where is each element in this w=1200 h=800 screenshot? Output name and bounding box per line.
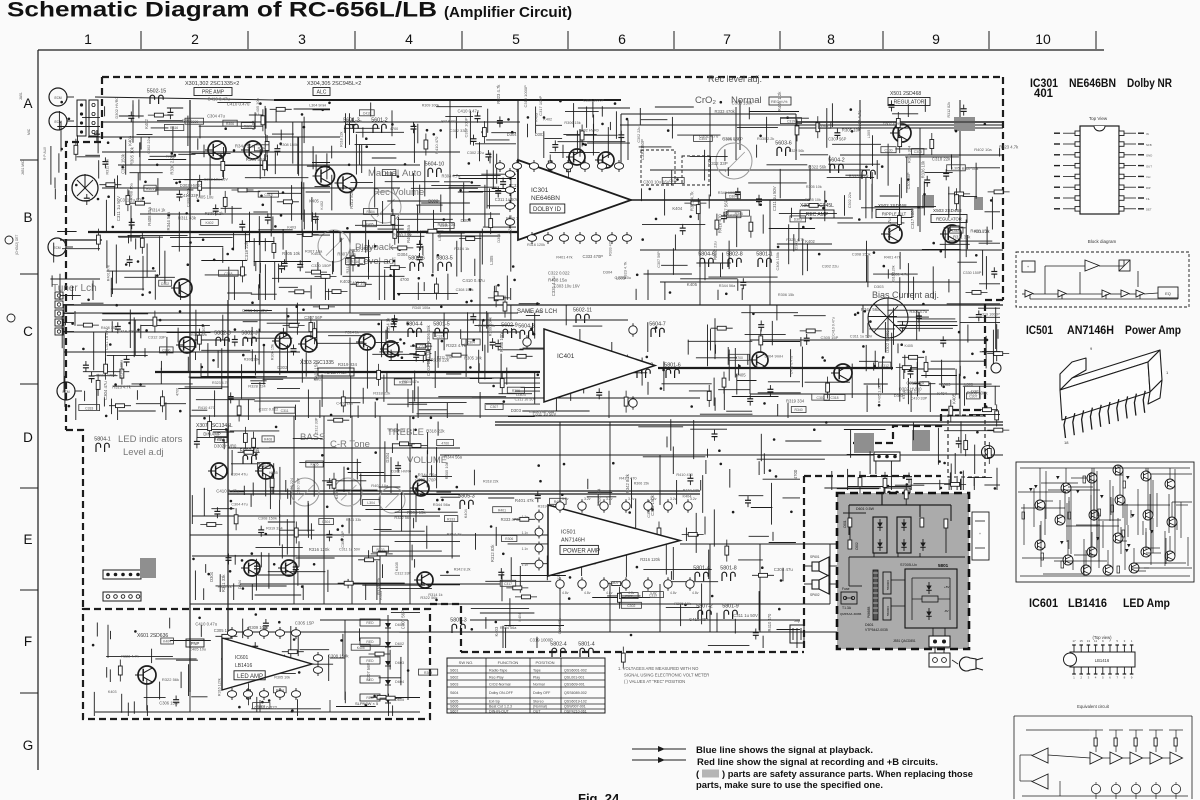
wire: [263, 344, 265, 385]
wire: [929, 383, 931, 413]
wire: [685, 528, 687, 541]
wire: [297, 699, 299, 716]
svg-text:R314 1k: R314 1k: [345, 331, 359, 335]
wire: [331, 175, 333, 211]
wire: [164, 251, 166, 284]
junction: [137, 260, 140, 263]
capacitor on stub: [282, 259, 288, 270]
wire: [581, 537, 583, 576]
wire: [625, 540, 627, 577]
wire: [135, 238, 137, 249]
resistor on stub: [272, 237, 276, 259]
wire: [767, 164, 808, 166]
wire: [566, 528, 568, 569]
wire: [894, 325, 958, 327]
wire: [328, 655, 330, 681]
svg-text:RIP: RIP: [1146, 186, 1151, 190]
wire: [781, 117, 809, 119]
wire bus A2: [88, 136, 340, 138]
svg-text:D303: D303: [461, 218, 472, 223]
svg-text:L304: L304: [367, 501, 375, 505]
wire: [144, 697, 166, 699]
wire: [223, 440, 225, 449]
junction: [121, 166, 124, 169]
junction: [321, 454, 324, 457]
junction: [563, 463, 566, 466]
wire: [146, 679, 148, 711]
wire: [837, 488, 879, 490]
wire: [662, 383, 712, 385]
wire: [483, 226, 516, 228]
wire: [510, 230, 512, 271]
resistor on stub: [208, 415, 212, 437]
switch: [862, 170, 875, 179]
capacitor on stub: [127, 256, 133, 267]
wire bus C5: [64, 351, 300, 353]
svg-text:R323 4.7k: R323 4.7k: [112, 384, 132, 389]
wire: [641, 358, 643, 386]
wire: [438, 235, 501, 237]
wire: [785, 440, 821, 442]
capacitor on stub: [758, 321, 764, 332]
wire: [485, 580, 551, 582]
junction: [128, 322, 131, 325]
svg-text:IC401: IC401: [557, 353, 575, 360]
wire: [772, 532, 774, 541]
wire: [165, 402, 167, 420]
wire: [779, 213, 837, 215]
wire: [139, 143, 141, 158]
wire rec box right: [795, 114, 797, 160]
wire: [298, 137, 300, 176]
junction: [222, 439, 225, 442]
wire: [688, 340, 753, 342]
wire: [328, 335, 365, 337]
wire: [380, 588, 432, 590]
wire: [176, 659, 198, 661]
wire: [379, 351, 403, 353]
svg-text:C318: C318: [264, 193, 272, 197]
wire: [670, 419, 672, 451]
svg-text:C318 22k: C318 22k: [244, 241, 249, 261]
wire: [417, 413, 464, 415]
capacitor on stub: [173, 696, 179, 707]
wire: [272, 133, 294, 135]
wire: [397, 217, 399, 244]
wire: [499, 349, 524, 351]
junction: [975, 254, 978, 257]
svg-text:L305: L305: [616, 275, 626, 280]
wire rec box left: [620, 114, 622, 165]
wire: [359, 628, 361, 641]
svg-text:QSS609-001: QSS609-001: [564, 683, 585, 687]
capacitor on stub: [721, 212, 727, 223]
transistor K409: [414, 572, 433, 588]
svg-text:5801-8: 5801-8: [720, 566, 737, 572]
wire: [565, 111, 599, 113]
svg-text:R316 120k: R316 120k: [309, 547, 331, 552]
wire: [290, 491, 292, 504]
junction: [568, 597, 571, 600]
resistor on stub: [682, 533, 704, 537]
wire: [77, 135, 79, 146]
wire: [155, 189, 193, 191]
wire: [385, 697, 420, 699]
junction: [242, 354, 245, 357]
wire: [136, 390, 138, 400]
capacitor on stub: [471, 135, 477, 146]
svg-text:R309 100k: R309 100k: [248, 625, 269, 630]
wire: [133, 317, 135, 357]
wire: [251, 708, 321, 710]
wire: [293, 437, 323, 439]
capacitor on stub: [258, 526, 264, 537]
resistor on stub: [140, 232, 144, 254]
svg-text:C303: C303: [817, 396, 825, 400]
wire: [666, 437, 668, 448]
wire: [300, 649, 330, 651]
svg-text:K404: K404: [518, 613, 522, 622]
svg-text:R323 4.7k: R323 4.7k: [212, 381, 229, 385]
svg-text:D303: D303: [795, 241, 799, 250]
svg-text:GND: GND: [1146, 154, 1152, 158]
switch 5803-5: [436, 256, 453, 272]
wire: [264, 238, 266, 251]
svg-text:1. VOLTAGES ARE MEASURED WIT: 1. VOLTAGES ARE MEASURED WITH NO: [618, 666, 699, 671]
transistor K404: [380, 341, 399, 357]
svg-text:POWER AMP: POWER AMP: [563, 548, 600, 554]
resistor on stub: [752, 573, 774, 577]
junction: [412, 331, 415, 334]
svg-text:Schematic Diagram of RC-656L/L: Schematic Diagram of RC-656L/LB: [7, 0, 437, 22]
wire: [426, 526, 428, 549]
wire: [593, 115, 595, 140]
wire: [372, 353, 427, 355]
svg-text:QMF5AZ-J0086: QMF5AZ-J0086: [840, 612, 862, 616]
wire: [106, 655, 173, 657]
svg-text:RED: RED: [366, 659, 374, 663]
svg-text:4.8v: 4.8v: [628, 591, 635, 595]
wire: [62, 248, 100, 250]
svg-text:PNP: PNP: [191, 641, 200, 646]
ruler left frame line: [37, 50, 39, 770]
svg-text:D304: D304: [507, 132, 518, 137]
wire: [297, 571, 299, 586]
wire: [151, 649, 153, 663]
junction: [777, 246, 780, 249]
junction: [230, 500, 233, 503]
svg-text:11: 11: [1094, 639, 1097, 643]
svg-text:C410 33P: C410 33P: [911, 397, 928, 401]
capacitor on stub: [497, 116, 503, 127]
resistor on stub: [896, 112, 900, 134]
capacitor on stub: [735, 188, 741, 199]
wire: [948, 279, 950, 292]
wire: [424, 160, 426, 196]
svg-text:Red line show the signal at re: Red line show the signal at recording an…: [697, 757, 938, 768]
capacitor on stub: [956, 437, 962, 448]
capacitor on stub: [417, 240, 423, 251]
junction: [273, 563, 276, 566]
svg-text:X502 2SD468: X502 2SD468: [878, 203, 907, 208]
wire: [459, 178, 497, 180]
wire: [635, 289, 637, 300]
svg-text:R306: R306: [226, 122, 234, 126]
junction: [265, 533, 268, 536]
capacitor on stub: [753, 629, 759, 640]
wire: [197, 138, 199, 150]
wire vert v23: [63, 305, 65, 392]
wire: [931, 360, 986, 362]
transistor K402: [298, 336, 317, 352]
svg-text:C304 47u: C304 47u: [231, 472, 248, 477]
capacitor on stub: [490, 338, 496, 349]
svg-text:C302 22u: C302 22u: [147, 137, 151, 153]
wire bias2: [750, 393, 960, 395]
wire playback bus: [88, 231, 518, 233]
switch 5805-3: [458, 494, 475, 510]
wire: [379, 486, 401, 488]
wire: [985, 336, 987, 369]
wire: [689, 390, 712, 392]
wire: [233, 583, 235, 600]
wire: [727, 347, 729, 365]
dashed boundary stair right: [850, 300, 1003, 443]
wire: [355, 224, 404, 226]
wire vert 740: [739, 100, 741, 150]
junction: [197, 199, 200, 202]
junction: [185, 212, 188, 215]
wire: [267, 155, 269, 171]
wire: [432, 377, 494, 379]
svg-text:C410 0.47u: C410 0.47u: [462, 278, 485, 283]
wire: [758, 591, 760, 630]
wire: [382, 201, 384, 224]
wire: [607, 127, 609, 158]
wire: [366, 347, 368, 389]
svg-text:K405: K405: [269, 471, 277, 475]
resistor on stub: [803, 204, 825, 208]
svg-text:E: E: [23, 532, 32, 547]
svg-text:C405 10u: C405 10u: [255, 98, 260, 115]
wire: [385, 181, 440, 183]
svg-text:P6668B: P6668B: [867, 607, 871, 618]
svg-text:C405 10u: C405 10u: [336, 401, 353, 406]
svg-text:IC501: IC501: [1026, 323, 1053, 337]
svg-text:C331 4.7u: C331 4.7u: [887, 218, 892, 238]
wire: [958, 261, 977, 263]
label REC AMP boxed: [800, 210, 834, 218]
capacitor on stub: [940, 336, 946, 347]
junction: [495, 621, 498, 624]
junction: [377, 323, 380, 326]
wire: [578, 107, 630, 109]
wire: [300, 182, 302, 220]
svg-text:4700: 4700: [390, 127, 398, 131]
svg-text:D605: D605: [395, 698, 404, 702]
wire: [484, 185, 486, 227]
wire: [251, 293, 277, 295]
svg-text:R312 82k: R312 82k: [947, 102, 951, 118]
svg-text:R410 470: R410 470: [717, 214, 722, 234]
wire: [850, 429, 852, 458]
junction: [301, 585, 304, 588]
resistor on stub: [309, 316, 313, 338]
capacitor on stub: [961, 105, 967, 116]
jack labels left margin: [5, 92, 47, 322]
svg-text:C318 22k: C318 22k: [906, 381, 925, 386]
resistor on stub: [858, 471, 862, 493]
svg-text:J451 MIC: J451 MIC: [21, 160, 25, 175]
wire: [615, 111, 617, 139]
psu transformer winding bar: [867, 570, 878, 620]
svg-text:R319: R319: [217, 438, 225, 442]
junction: [365, 145, 368, 148]
svg-text:R323 4.7k: R323 4.7k: [496, 84, 501, 104]
wire: [707, 449, 709, 458]
wire: [311, 197, 313, 222]
wire: [255, 261, 257, 271]
capacitor on stub: [263, 619, 269, 630]
svg-text:C311: C311: [281, 409, 289, 413]
wire: [704, 517, 706, 535]
wire: [132, 383, 193, 385]
svg-text:R305 10k: R305 10k: [806, 185, 822, 189]
svg-text:R344 56a: R344 56a: [433, 502, 451, 507]
wire: [487, 109, 489, 133]
svg-text:S7005-Ux: S7005-Ux: [900, 563, 917, 567]
wire: [878, 378, 880, 387]
grid column tick: [1095, 31, 1097, 49]
wire: [282, 328, 284, 337]
svg-text:C410 0.47u: C410 0.47u: [789, 356, 793, 375]
svg-text:4.8v: 4.8v: [692, 591, 699, 595]
svg-text:FUNCTION: FUNCTION: [498, 660, 519, 665]
wire: [296, 303, 298, 335]
svg-text:C302 22u: C302 22u: [467, 150, 484, 155]
resistor on stub: [913, 382, 935, 386]
wire bus rec1: [796, 127, 1003, 129]
wire: [361, 145, 363, 173]
resistor on stub: [161, 390, 165, 412]
wire: [944, 430, 1000, 432]
wire: [671, 170, 673, 185]
label PRE AMP boxed: [194, 88, 232, 96]
switch 5801-6: [664, 363, 681, 379]
wire: [844, 195, 846, 216]
wire vert v4: [349, 232, 351, 313]
svg-text:AN7146H: AN7146H: [561, 537, 585, 543]
svg-text:5801: 5801: [938, 563, 949, 568]
svg-text:QSP4210-061: QSP4210-061: [564, 710, 587, 714]
wire: [253, 211, 268, 213]
svg-text:C303: C303: [257, 704, 265, 708]
wire: [231, 450, 233, 476]
wire: [726, 410, 752, 412]
wire: [50, 278, 100, 280]
wire: [869, 328, 895, 330]
junction: [763, 402, 766, 405]
junction: [497, 284, 500, 287]
resistor on stub: [384, 266, 406, 270]
svg-text:C333 470P: C333 470P: [583, 254, 604, 259]
svg-text:5804-4: 5804-4: [406, 322, 423, 328]
wire: [996, 468, 998, 490]
resistor on stub: [294, 522, 298, 544]
wire: [114, 179, 116, 216]
wire: [250, 380, 266, 382]
svg-text:R314 1k: R314 1k: [386, 317, 391, 333]
wire: [771, 483, 773, 525]
wire: [479, 382, 540, 384]
svg-text:SP602: SP602: [810, 593, 820, 597]
wire bus D5: [192, 555, 460, 557]
junction: [940, 487, 943, 490]
wire bus A6: [140, 213, 500, 215]
wire: [951, 154, 953, 169]
junction: [469, 288, 472, 291]
wire: [426, 584, 460, 586]
junction: [561, 364, 564, 367]
wire: [286, 308, 288, 333]
resistor on stub: [153, 311, 157, 333]
capacitor on stub: [124, 355, 130, 366]
svg-text:QSW007-001: QSW007-001: [564, 705, 586, 709]
junction: [415, 475, 418, 478]
wire: [436, 491, 451, 493]
wire: [475, 143, 516, 145]
svg-text:13: 13: [1087, 639, 1091, 643]
wire: [944, 230, 946, 258]
wire: [244, 310, 272, 312]
switch 5802-3: [214, 331, 231, 347]
svg-text:R328: R328: [399, 381, 407, 385]
svg-text:K405: K405: [335, 490, 339, 499]
svg-text:Ext-Sp: Ext-Sp: [489, 700, 500, 704]
svg-text:C311 1u 50V: C311 1u 50V: [242, 308, 267, 313]
wire: [910, 391, 912, 412]
wire: [643, 569, 711, 571]
wire: [381, 530, 425, 532]
wire: [899, 277, 901, 300]
junction: [261, 701, 264, 704]
wire: [607, 595, 640, 597]
svg-text:5602-11: 5602-11: [573, 308, 592, 314]
junction: [984, 123, 987, 126]
wire: [469, 190, 516, 192]
svg-text:R405 1.2k: R405 1.2k: [877, 385, 882, 403]
wire: [427, 432, 429, 454]
wire: [492, 150, 494, 189]
svg-text:C319 1000P: C319 1000P: [523, 85, 528, 108]
wire: [720, 263, 722, 278]
wire: [761, 341, 800, 343]
junction: [141, 294, 144, 297]
resistor on stub: [200, 523, 222, 527]
transistor K405: [208, 463, 227, 479]
svg-text:D303: D303: [511, 408, 522, 413]
capacitor on stub: [900, 321, 906, 332]
wire: [954, 453, 956, 474]
svg-text:C311 1u 50V: C311 1u 50V: [116, 196, 121, 221]
junction: [291, 709, 294, 712]
svg-text:R405 1.2k: R405 1.2k: [345, 119, 362, 123]
wire: [745, 334, 786, 336]
wire: [279, 340, 281, 374]
svg-text:5807-2: 5807-2: [696, 604, 713, 610]
wire: [160, 361, 162, 370]
svg-text:3.2v: 3.2v: [670, 497, 677, 501]
